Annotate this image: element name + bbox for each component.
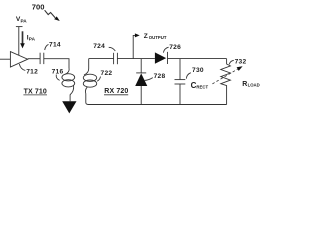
wire amp output (28, 58, 40, 60)
wire coil to ground (69, 94, 71, 101)
resistor R732 (load) (221, 59, 231, 105)
svg-text:TX 710: TX 710 (24, 88, 47, 95)
svg-text:716: 716 (52, 68, 64, 75)
leader for 728 (144, 78, 153, 81)
svg-text:Z: Z (144, 33, 148, 40)
wire VPA vertical (18, 27, 20, 56)
ground (62, 101, 76, 113)
wire amp input (0, 58, 10, 60)
leader for 722 (97, 77, 100, 82)
leader for 724 (109, 47, 116, 51)
current arrow IPA (20, 31, 25, 48)
svg-text:724: 724 (93, 43, 105, 50)
variable arrow through resistor (212, 66, 242, 84)
svg-text:PA: PA (21, 18, 28, 23)
wire RX top rail left (89, 58, 114, 60)
leader for 732 (229, 60, 234, 64)
inductor L722 (RX coil) (83, 59, 96, 94)
diode D726 (155, 52, 168, 64)
capacitor CRECT 730 (175, 59, 186, 105)
svg-text:R: R (242, 81, 247, 88)
svg-text:LOAD: LOAD (248, 82, 260, 87)
label RLOAD (242, 81, 260, 88)
svg-text:714: 714 (49, 41, 61, 48)
leader for 726 (163, 47, 168, 52)
svg-text:722: 722 (101, 70, 113, 77)
VPA supply terminal bar (16, 26, 23, 28)
capacitor C714 (40, 53, 44, 64)
svg-text:RX 720: RX 720 (104, 88, 128, 95)
leader for 712 (19, 64, 25, 70)
wire coil to bottom rail (86, 94, 88, 105)
node ZOUTPUT indicator (133, 33, 140, 58)
svg-text:728: 728 (154, 73, 166, 80)
label CRECT (191, 81, 209, 90)
wire cap to corner (44, 59, 69, 68)
leader for 730 (186, 73, 190, 79)
diode D728 (shunt) (135, 59, 147, 105)
inductor L716 (TX coil) (62, 68, 75, 95)
svg-text:726: 726 (169, 44, 181, 51)
svg-text:PA: PA (29, 37, 36, 42)
wire RX top rail mid (117, 58, 154, 60)
IPA label (27, 35, 36, 42)
svg-text:700: 700 (32, 2, 45, 11)
node VPA label (16, 16, 27, 23)
wire RX top rail right (168, 58, 227, 60)
svg-text:RECT: RECT (196, 84, 208, 89)
svg-text:732: 732 (235, 58, 247, 65)
leader squiggle arrow for 700 (45, 10, 56, 18)
leader for 716 (56, 75, 59, 81)
op-amp PA triangle U712 (10, 52, 27, 67)
label ZOUTPUT (144, 33, 167, 40)
capacitor C724 (114, 53, 118, 64)
svg-text:730: 730 (192, 67, 204, 74)
svg-text:OUTPUT: OUTPUT (149, 35, 167, 40)
svg-text:712: 712 (26, 68, 38, 75)
wire bottom rail (88, 104, 227, 106)
leader for 714 (45, 44, 49, 50)
